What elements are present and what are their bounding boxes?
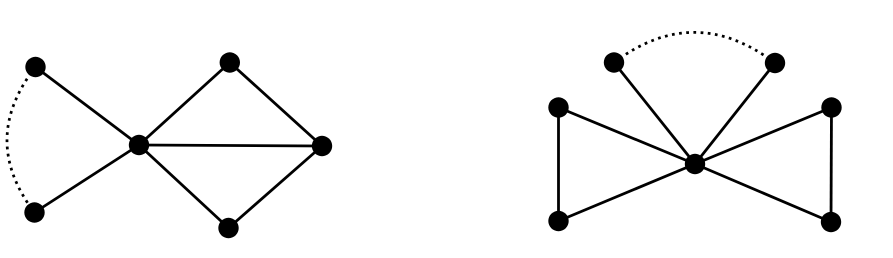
wire C-E xyxy=(139,145,229,228)
wire J-M xyxy=(830,108,833,223)
wire M-K xyxy=(695,164,831,222)
node A (left graph, top-left) xyxy=(25,57,45,77)
wire G-K xyxy=(614,63,695,165)
wire D-F xyxy=(230,63,322,147)
wire C-D xyxy=(139,63,230,146)
dotted arc G-H xyxy=(614,32,775,63)
wire E-F xyxy=(229,146,323,228)
wire H-K xyxy=(695,63,775,164)
node J (right graph, right) xyxy=(821,97,841,117)
node G (right graph, inner top-left) xyxy=(604,52,624,72)
node C (left graph, center) xyxy=(129,135,149,155)
node B (left graph, bottom-left) xyxy=(24,202,44,222)
wire B-C xyxy=(35,145,140,213)
node H (right graph, inner top-right) xyxy=(765,53,785,73)
node M (right graph, bottom-right) xyxy=(821,212,841,232)
node L (right graph, bottom-left) xyxy=(548,211,568,231)
dotted arc A-B xyxy=(7,67,36,213)
node I (right graph, left) xyxy=(548,97,568,117)
node F (left graph, right) xyxy=(312,136,332,156)
wire I-L xyxy=(557,108,560,222)
wire A-C xyxy=(36,67,140,145)
node E (left graph, bottom) xyxy=(218,218,238,238)
wire L-K xyxy=(559,164,696,221)
node K (right graph, center) xyxy=(685,154,705,174)
wire C-F xyxy=(139,145,322,146)
node D (left graph, top) xyxy=(220,52,240,72)
wire J-K xyxy=(695,108,832,165)
wire I-K xyxy=(559,108,696,165)
